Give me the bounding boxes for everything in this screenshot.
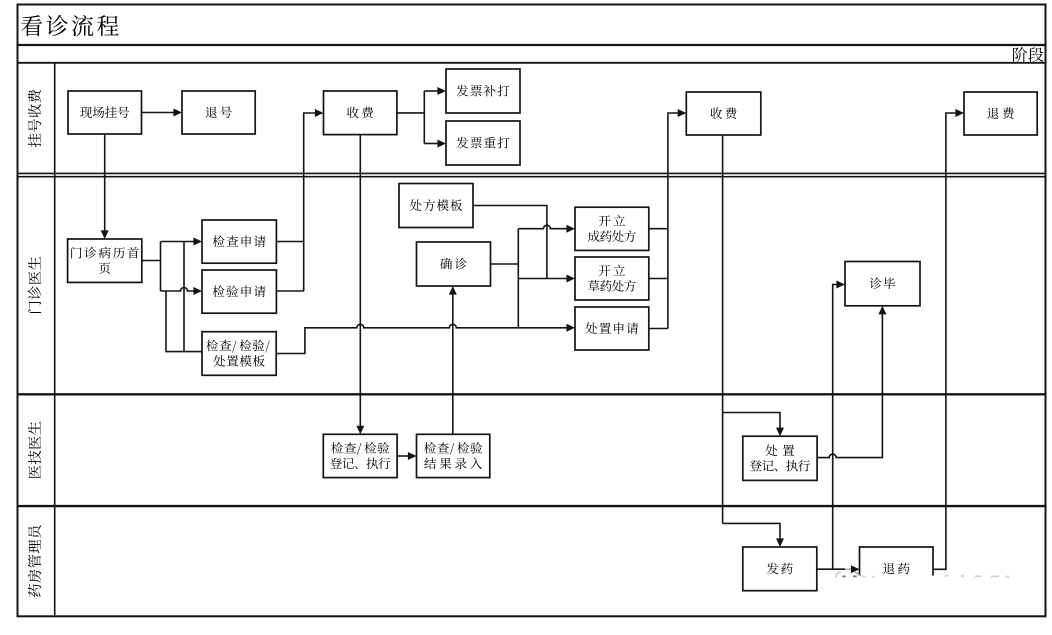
arrow into 开立成药处方 — [566, 225, 575, 233]
lane divider 1-2 upper — [17, 172, 1047, 174]
wire request bracket vertical — [160, 242, 162, 292]
arrow into 确诊 bottom — [449, 286, 457, 295]
wire bracket to 检验申请 — [161, 288, 195, 292]
wire 现场挂号 down to 门诊病历首页 — [104, 134, 106, 231]
wire branch to 发票补打 — [424, 90, 438, 92]
wire riser up to 收费 second — [668, 113, 678, 329]
wire template riser left — [166, 291, 202, 352]
lane label 医技医生 — [28, 421, 41, 478]
wire 处置申请 to riser — [649, 328, 668, 330]
wire 门诊病历首页 to request bracket — [142, 260, 161, 262]
wire 处方模板 down to 草药 line — [473, 206, 547, 279]
arrow into 处置登记执行 — [776, 428, 784, 437]
box 检验申请 — [202, 270, 276, 313]
phase label 阶段 — [1013, 47, 1043, 62]
wire invoice branch vertical — [423, 91, 425, 144]
wire 成药 to riser — [649, 228, 668, 230]
box 检查申请 — [202, 220, 276, 263]
wire 登记执行 to 结果录入 — [397, 455, 408, 457]
arrow into 开立草药处方 — [566, 275, 575, 283]
arrow into 退号 — [173, 109, 182, 117]
arrow into 退费 — [955, 109, 964, 117]
wire 收费 to invoice branch — [397, 112, 424, 114]
box 开立成药处方 — [575, 207, 649, 250]
wire 收费 down to 检查检验登记执行 — [359, 135, 361, 426]
box 检查检验处置模板 — [202, 332, 276, 376]
wire bracket to 检查申请 — [161, 241, 195, 243]
wire 结果录入 up to 确诊 — [452, 295, 454, 435]
watermark remnant marks — [836, 572, 1010, 578]
lane divider 3-4 — [17, 505, 1047, 507]
box 确诊 — [417, 242, 491, 286]
box 诊毕 — [845, 262, 920, 306]
box 退费 — [964, 92, 1037, 135]
arrow into 收费 — [315, 109, 324, 117]
box 开立草药处方 — [575, 257, 649, 300]
phase band bottom line — [17, 62, 1047, 64]
box 发票重打 — [446, 121, 520, 165]
wire 现场挂号 to 退号 — [142, 112, 174, 114]
wire 模板 long run to 处置申请 — [276, 324, 566, 353]
wire 确诊 to prescription bracket — [491, 263, 519, 265]
wire template riser right — [183, 242, 185, 352]
wire faded segment before 退药 — [845, 568, 852, 570]
box 处置申请 — [575, 307, 649, 350]
lane label 挂号收费 — [28, 90, 41, 147]
arrow into 发票重打 — [437, 140, 446, 148]
lane divider 2-3 — [17, 393, 1047, 395]
wire 收费 second down trunk — [722, 135, 724, 523]
box 现场挂号 — [68, 91, 142, 134]
wire 草药 to riser — [649, 278, 668, 280]
wire bracket to 开立成药处方 — [518, 225, 566, 229]
wire 发药 to 退药 — [817, 568, 845, 570]
wire riser up to 收费 — [304, 113, 316, 291]
wire 退药 up to 退费 — [933, 113, 956, 569]
box 退号 — [182, 91, 255, 134]
lane label 门诊医生 — [28, 257, 41, 313]
lane divider 1-2 lower — [17, 176, 1047, 178]
wire junction up to 诊毕 left — [833, 285, 837, 570]
arrow into 发票补打 — [437, 87, 446, 95]
wire branch to 发药 — [723, 523, 780, 538]
arrow into 诊毕 left — [836, 281, 845, 289]
box 退药 — [860, 547, 934, 591]
arrow into 检验申请 — [193, 287, 202, 295]
arrow into 处置申请 — [566, 324, 575, 332]
box 发票补打 — [446, 69, 520, 113]
arrow into 检查申请 — [193, 238, 202, 246]
arrow into 收费 second — [678, 109, 687, 117]
lane label 药房管理员 — [28, 526, 41, 598]
wire branch to 发票重打 — [424, 143, 438, 145]
arrow into 检查检验登记执行 — [356, 426, 364, 435]
wire 检验申请 join to 收费 riser — [276, 290, 303, 292]
arrow into 退药 — [851, 565, 860, 573]
wire 检查申请 to riser — [276, 241, 303, 243]
box 检查检验结果录入 — [417, 434, 490, 477]
arrow into 门诊病历首页 — [101, 230, 109, 239]
wire branch to 处置登记执行 — [723, 413, 780, 429]
wire 处置登记执行 to 诊毕 bottom — [817, 314, 882, 457]
box 处方模板 — [399, 184, 473, 228]
title separator line — [17, 44, 1047, 46]
lane label column divider — [54, 63, 56, 617]
arrow into 诊毕 bottom — [878, 306, 886, 315]
wire prescription bracket vertical — [517, 229, 519, 328]
box 收费 second — [686, 92, 761, 135]
box 发药 — [743, 547, 817, 591]
box 收费 — [324, 91, 397, 135]
box 门诊病历首页 — [68, 239, 142, 282]
title 看诊流程 — [21, 15, 119, 36]
box 检查检验登记执行 — [323, 434, 397, 477]
arrow into 发药 — [776, 538, 784, 547]
wire bracket to 开立草药处方 — [518, 278, 566, 280]
arrow into 结果录入 — [408, 452, 417, 460]
watermark white patch — [826, 576, 1012, 598]
box 处置登记执行 — [743, 436, 817, 480]
